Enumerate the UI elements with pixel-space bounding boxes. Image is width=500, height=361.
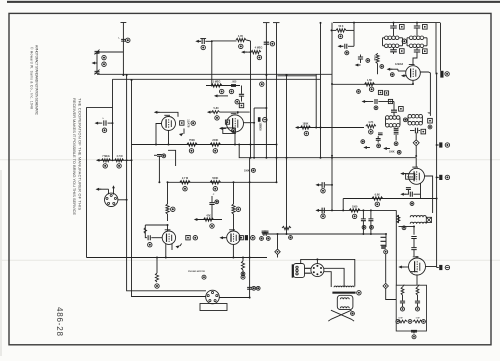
page top edge bar: [7, 1, 500, 3]
wire osc feedback: [250, 41, 252, 159]
capacitor C22: [411, 237, 416, 248]
detector in: [362, 99, 395, 110]
bold mark B4: [437, 265, 443, 270]
wire bus V316: [315, 74, 317, 127]
margin note: cooperation text: [72, 98, 83, 215]
wire bus V286: [286, 74, 288, 234]
wire V4 cathode: [232, 244, 234, 258]
circled ref 3: [102, 62, 106, 66]
phono socket X2: [206, 290, 220, 304]
circled ref v5c: [374, 106, 378, 110]
svg-text:.005: .005: [232, 80, 237, 83]
capacitor C23: [411, 248, 416, 256]
circled ref 8: [215, 116, 219, 120]
box ref v5f: [378, 90, 388, 95]
res RA: [401, 285, 404, 295]
circled ref 45: [428, 125, 432, 129]
wire plate rail row3: [168, 181, 277, 183]
circled ref 36: [357, 291, 361, 295]
capacitor C18: [376, 136, 381, 143]
capacitor C16: [358, 55, 363, 64]
resistor R12: [241, 257, 244, 276]
circled ref 10: [229, 89, 233, 93]
resistor R13: [155, 257, 158, 283]
arrow C16: [355, 63, 361, 66]
switch diamond: [275, 233, 280, 258]
IF2 box a: [399, 107, 404, 112]
circled ref 17: [213, 149, 217, 153]
IF2 primary: [386, 114, 423, 119]
IF1 capacitor d: [413, 48, 420, 65]
resistor R16: [331, 25, 355, 32]
margin note: photofact credit: [30, 45, 39, 116]
grid arrow V5: [387, 68, 406, 71]
speaker socket X3: [311, 264, 324, 277]
circled ref 49: [394, 142, 398, 146]
circled ref 35: [260, 237, 271, 241]
wire V7 right: [426, 266, 437, 268]
AC plug P1: [381, 234, 387, 248]
resistor R3 1meg: [206, 80, 240, 87]
box ref V1: [180, 121, 184, 125]
svg-text:RECEIVER MAKES IT POSSIBLE TO: RECEIVER MAKES IT POSSIBLE TO BRING YOU …: [72, 98, 77, 215]
res RB: [416, 285, 419, 295]
IF1 secondary: [383, 44, 403, 48]
circled ref 9: [220, 89, 224, 93]
capacitor C1: [118, 38, 130, 43]
circled ref 7: [191, 121, 195, 125]
circled ref 50: [397, 150, 401, 154]
res RC: [398, 317, 407, 323]
circled dot d: [412, 335, 416, 339]
pilot dots c: [396, 320, 426, 324]
resistor R14 1000: [349, 205, 360, 212]
cap CB: [415, 295, 420, 307]
phono label: [188, 271, 205, 273]
arrow C10: [315, 183, 321, 186]
wire choke: [399, 227, 415, 235]
wire cathode rail row3: [87, 257, 268, 259]
circled ref 48: [377, 144, 381, 148]
wire R4 corner: [246, 39, 250, 42]
osc coil marks: [244, 168, 255, 172]
speaker field coil: [337, 295, 353, 309]
svg-text:1.5K: 1.5K: [367, 79, 372, 82]
IF2 secondary: [386, 121, 423, 127]
TP label: [427, 112, 430, 115]
wire vertical bus A: [127, 74, 206, 290]
arrow C11: [315, 209, 321, 212]
arrow volume: [96, 159, 102, 162]
circled ref c24: [162, 154, 166, 158]
circled ref 11: [235, 100, 239, 104]
tube V4 50B5: [227, 230, 240, 245]
voice coil X: [328, 310, 354, 321]
grid arrow V4b: [219, 236, 226, 239]
label V6: [406, 174, 415, 179]
svg-text:PHONO MOTOR: PHONO MOTOR: [188, 271, 205, 273]
line cord box: [396, 285, 426, 331]
pilot dot a: [401, 307, 405, 311]
box ref V4: [239, 236, 243, 240]
grid box V3: [144, 225, 168, 238]
cathode arrow V3: [176, 244, 182, 249]
circled minus B4: [445, 265, 449, 269]
socket top lead: [112, 185, 115, 194]
wire V6 plate: [425, 176, 433, 213]
resistor R4 4.7K: [236, 35, 246, 42]
tube V7 35W4: [409, 257, 426, 275]
svg-text:486-28: 486-28: [55, 307, 64, 337]
circled ref 40: [402, 39, 406, 43]
svg-text:56 K: 56 K: [338, 25, 343, 28]
pilot dot b: [416, 307, 420, 311]
scan fold line 1: [0, 159, 500, 161]
svg-text:4 MEG: 4 MEG: [255, 47, 263, 50]
anode res V4: [232, 181, 235, 231]
wire spk mid: [324, 268, 344, 286]
resistor R5 4.7meg: [251, 47, 263, 54]
anode wire V3: [167, 224, 169, 231]
IF1 secondary b: [407, 44, 427, 48]
circled ref 33: [375, 202, 379, 206]
svg-text:4.7K: 4.7K: [368, 121, 373, 124]
wire left net: [87, 79, 113, 257]
arrow V4 grid: [194, 218, 200, 221]
wire grid drop: [211, 40, 213, 86]
resistor R7 220K: [210, 139, 221, 146]
bold mark B2: [437, 175, 443, 180]
wire V7 bottom: [416, 275, 418, 285]
wire top rail H1: [97, 73, 332, 75]
wire phono drop: [249, 158, 251, 299]
tube V6 50B5: [409, 167, 425, 184]
label 100K: [389, 150, 395, 153]
IF1 box a: [400, 25, 405, 30]
speaker plug P2: [292, 264, 311, 278]
circled ref 20: [215, 200, 219, 204]
capacitor C5 on V266: [264, 42, 269, 44]
wire AVC bus H5: [238, 144, 416, 168]
wire right bus: [436, 74, 438, 267]
scan fold line 2: [0, 259, 500, 261]
circled ref 6: [117, 164, 121, 168]
circled ref 31: [321, 214, 325, 218]
arrow R5: [241, 51, 251, 54]
box ref V2a: [225, 120, 229, 124]
resistor R19 180K: [299, 122, 364, 129]
capacitor C7: [209, 194, 214, 204]
svg-text:7 MEG: 7 MEG: [102, 155, 110, 158]
left page edge shade: [0, 170, 2, 356]
circled ref 43: [380, 65, 384, 69]
IF1 capacitor c: [390, 48, 397, 54]
phono box: [200, 304, 227, 311]
wire C7 down: [211, 205, 213, 220]
tube V5 12BA6: [406, 65, 421, 81]
osc network box: [223, 128, 236, 134]
circled ref 37: [351, 312, 355, 316]
circled ref 15: [201, 45, 205, 49]
svg-text:2.7 M: 2.7 M: [182, 177, 188, 180]
circled ref 16: [189, 149, 193, 153]
arrow det b: [383, 147, 390, 150]
resistor R22: [282, 226, 292, 239]
res RD: [413, 317, 422, 323]
svg-text:© Howard W. Sams & Co., Inc. 1: © Howard W. Sams & Co., Inc. 1948: [30, 47, 34, 109]
arrow R19: [295, 126, 301, 129]
box ref V3: [186, 236, 190, 240]
svg-text:1 MEG: 1 MEG: [213, 80, 221, 83]
wire audio bus V332: [331, 23, 333, 211]
cap C17: [378, 133, 383, 135]
IF2 capacitor b: [410, 128, 420, 134]
circled ref 28: [155, 284, 159, 288]
IF1 capacitor b: [414, 23, 420, 36]
circled ref r21: [369, 87, 373, 91]
circled dot c: [384, 250, 388, 254]
wire vertical bus B: [132, 79, 206, 296]
tube label V1: [186, 119, 190, 128]
wire cathode rail row2: [132, 144, 278, 146]
wire V3 down: [165, 244, 172, 259]
resistor R2: [115, 155, 124, 162]
tube V3 12AT6: [162, 230, 175, 245]
capacitor C8: [148, 235, 162, 240]
circled minus V2: [263, 118, 267, 122]
wire fuse down: [386, 289, 397, 300]
wire plug down: [385, 254, 387, 283]
IF1 frame: [383, 38, 428, 46]
wire osc bus V276: [273, 23, 280, 183]
circled ref 51: [304, 131, 308, 135]
wire B+ line H8: [343, 198, 436, 200]
capacitor C12 C13: [361, 209, 374, 234]
wire to rect: [416, 256, 418, 258]
circled ref 47: [361, 140, 365, 144]
choke L2: [410, 216, 426, 224]
circled ref 30: [321, 189, 325, 193]
capacitor C11: [322, 208, 324, 214]
loop antenna L1: [95, 50, 124, 75]
circled ref 14: [270, 42, 274, 46]
capacitor C10: [322, 182, 333, 188]
wire volume line H6: [98, 159, 132, 161]
resistor R6 750K: [187, 139, 197, 146]
tube V1 12AT6: [162, 115, 176, 130]
svg-text:1000: 1000: [352, 205, 358, 208]
IF1 capacitor a: [390, 23, 397, 36]
wire V5 bottom: [412, 80, 414, 84]
circled ref 32: [352, 214, 356, 218]
box ref v5d: [388, 99, 392, 103]
resistor R20: [397, 215, 400, 223]
circled ref 5: [103, 164, 107, 168]
svg-text:THE COOPERATION OF THE MANUFAC: THE COOPERATION OF THE MANUFACTURER OF T…: [78, 98, 83, 210]
wire grid bus V266: [263, 23, 270, 158]
resistor R9 2.7M: [180, 177, 190, 184]
grid arrow V6: [400, 172, 408, 175]
circled ref 23: [193, 236, 197, 240]
circled ref 34: [362, 225, 373, 229]
wire stub V354: [353, 23, 355, 31]
circled dot a: [202, 275, 206, 279]
svg-text:5-80: 5-80: [213, 107, 219, 110]
IF2 box b: [428, 118, 433, 123]
capacitor C9: [247, 287, 252, 289]
wire spk top: [301, 259, 355, 286]
svg-text:560K: 560K: [212, 177, 218, 180]
circled ref 21: [210, 224, 214, 228]
wire V5 plate: [420, 72, 430, 116]
svg-text:12AT6: 12AT6: [186, 119, 190, 128]
resistor R15: [372, 193, 383, 200]
svg-text:4.7 M: 4.7 M: [117, 155, 123, 158]
capacitor C3: [231, 80, 237, 86]
svg-text:12BA6: 12BA6: [395, 62, 404, 66]
svg-text:6.8K: 6.8K: [375, 193, 380, 196]
wire socket right: [118, 199, 128, 201]
circled ref 44: [403, 118, 407, 122]
wire rail H2: [113, 78, 321, 80]
volume diamond: [413, 133, 419, 157]
arrow det a: [363, 146, 370, 149]
wire V6 cathode: [420, 184, 422, 199]
circled ref v5a: [390, 73, 394, 77]
circled ref 41: [338, 34, 342, 38]
capacitor C19: [394, 129, 399, 141]
bold mark B3: [437, 142, 443, 147]
arrow C21: [400, 193, 406, 196]
wire AC line H10: [262, 233, 386, 235]
circled ref 25: [236, 207, 240, 211]
circled ref 27: [241, 272, 245, 276]
circled ref h3: [260, 82, 264, 86]
IF1 box c: [400, 49, 405, 54]
box ref C4: [239, 103, 243, 107]
capacitor C21: [405, 192, 421, 197]
grid arrow V1: [154, 111, 178, 117]
circled ref 46: [369, 130, 373, 134]
arrow V5b: [401, 74, 407, 77]
arrow socket: [96, 188, 109, 195]
wire H8 corner: [331, 199, 344, 212]
circled ref 19: [213, 187, 217, 191]
capacitor C15: [338, 30, 355, 54]
IF2 box c: [421, 129, 426, 134]
resistor R18 4.7K: [366, 121, 376, 128]
wire right bus top: [436, 23, 441, 75]
circled ref v5e: [357, 90, 361, 94]
circled ref 2: [102, 55, 106, 59]
circled ref 26: [251, 236, 255, 240]
capacitor C4: [239, 86, 244, 102]
resistor R1 7meg: [102, 155, 111, 162]
circled ref 12: [239, 44, 243, 48]
svg-text:A PHOTOFACT STANDARD NOTATION: A PHOTOFACT STANDARD NOTATION SCHEMATIC: [35, 45, 39, 116]
fuse diamond: [383, 283, 388, 288]
wire phono right: [219, 298, 249, 299]
wire V1 cathode: [168, 131, 170, 146]
svg-text:470K: 470K: [373, 55, 376, 61]
output transformer T1: [332, 286, 355, 294]
arrow grid: [214, 94, 228, 97]
circled ref 53: [445, 143, 449, 147]
cathode arrow V1: [179, 129, 184, 137]
tube socket X1: [105, 193, 118, 206]
resistor R10 560K: [210, 177, 221, 184]
wire spk low: [324, 272, 332, 287]
wire rail H2b: [277, 75, 316, 77]
grid wire V4: [196, 219, 222, 221]
wire B line H7: [317, 210, 397, 285]
circled ref 39: [445, 72, 449, 76]
capacitor C6: [200, 39, 212, 45]
grid arrow V7: [398, 265, 408, 268]
wire IF top rail: [333, 22, 440, 24]
trimmer 5-80: [207, 107, 250, 114]
dial lamp: [411, 330, 417, 333]
cap CA: [400, 295, 405, 307]
anode res V3: [166, 182, 169, 221]
grid arrow V2: [219, 127, 226, 130]
circled ref 22: [171, 207, 175, 211]
circled ref 55: [402, 226, 406, 230]
IF1 primary: [383, 36, 403, 40]
label V5: [395, 62, 404, 66]
svg-text:TP: TP: [427, 112, 430, 115]
capacitor C24: [154, 155, 162, 184]
resistor R17: [373, 53, 379, 74]
antenna terminal: [121, 23, 127, 75]
svg-text:100K: 100K: [244, 169, 250, 172]
svg-text:12BE6: 12BE6: [258, 122, 262, 131]
trimmer arrow: [92, 61, 98, 64]
svg-text:220K: 220K: [212, 139, 218, 142]
svg-text:100K: 100K: [389, 150, 395, 153]
circled ref 4: [102, 128, 106, 132]
circled ref 18: [183, 187, 187, 191]
IF1 box b: [423, 25, 428, 30]
wire rail H3 right: [332, 83, 413, 85]
wire grid top: [212, 40, 237, 42]
tube label V2: [258, 117, 262, 131]
tube V2 12BE6: [227, 114, 244, 132]
wire bus V320: [320, 22, 322, 159]
circled ref 42: [366, 59, 370, 63]
box ref T2: [426, 217, 431, 222]
bold mark B1: [440, 71, 443, 78]
resistor R21 1.5K: [365, 79, 375, 86]
svg-text:50B5: 50B5: [407, 176, 414, 179]
svg-text:4.7K: 4.7K: [238, 35, 243, 38]
circled ref 29: [252, 286, 260, 290]
capacitor C20: [406, 188, 411, 195]
IF2 capacitor a: [391, 110, 397, 115]
circled ref c8: [148, 243, 152, 247]
bold mark V4: [245, 235, 248, 240]
wire V1 left: [155, 124, 162, 146]
wire V2 plate net: [244, 107, 268, 159]
IF1 box d: [423, 49, 428, 54]
circled dot b: [241, 275, 245, 279]
IF1 primary b: [407, 36, 427, 40]
wire corner mid: [168, 150, 176, 166]
svg-text:750K: 750K: [189, 139, 195, 142]
arrow C6: [195, 40, 201, 43]
resistor R11 47K: [204, 214, 214, 221]
svg-text:180K: 180K: [303, 122, 309, 125]
